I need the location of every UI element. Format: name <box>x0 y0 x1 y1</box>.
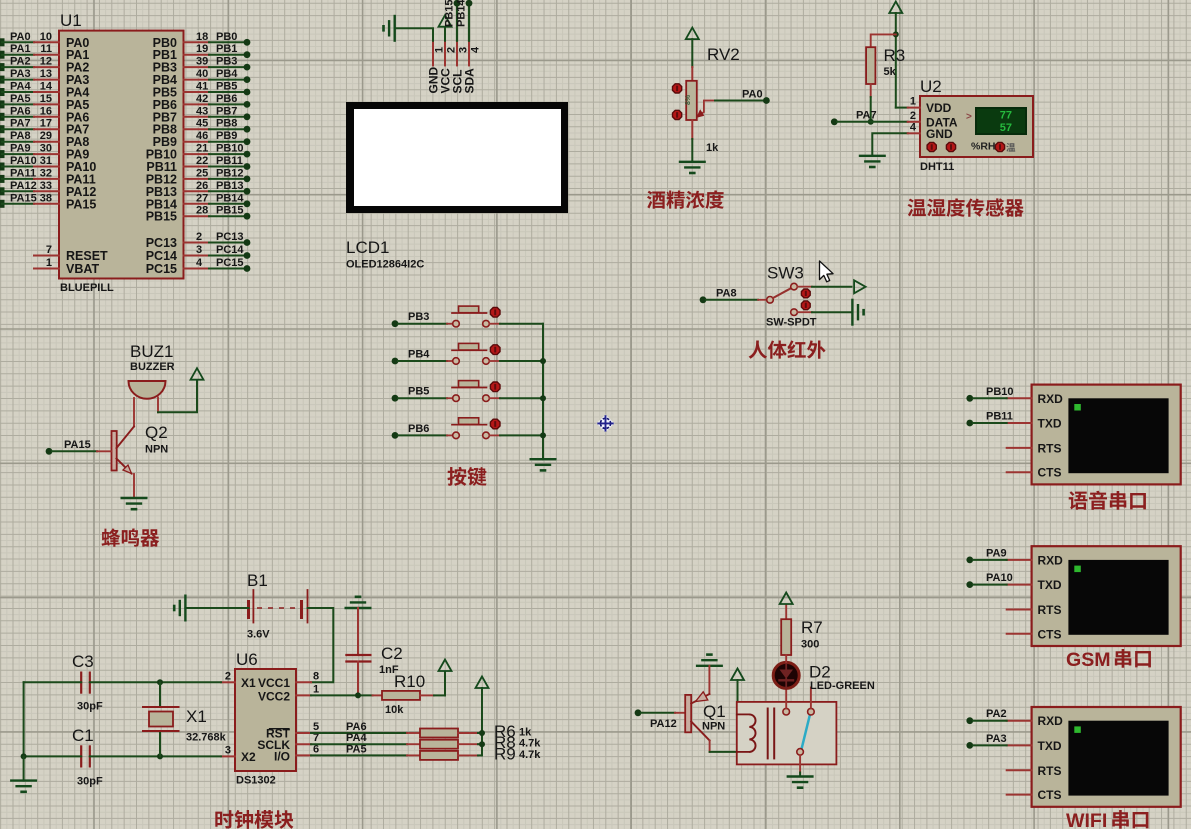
inverted ground (Q1 emitter) <box>697 655 722 666</box>
svg-text:22: 22 <box>196 155 208 167</box>
switch SW3 SW-SPDT <box>766 264 817 329</box>
svg-text:TXD: TXD <box>1038 417 1062 431</box>
svg-text:30: 30 <box>40 143 52 155</box>
push button PB3 <box>392 306 500 327</box>
wire VCC2 to C2/R10 <box>311 692 373 698</box>
svg-text:PB15: PB15 <box>444 0 456 27</box>
caption GSM serial <box>1066 649 1151 671</box>
U1 pin 15 PA5 (left) with wire and terminal <box>0 93 89 112</box>
svg-text:PA9: PA9 <box>10 143 31 155</box>
svg-text:PA7: PA7 <box>10 118 31 130</box>
U1 pin 19 PB1 (right) with wire and terminal <box>153 43 251 62</box>
svg-text:39: 39 <box>196 56 208 68</box>
svg-text:1: 1 <box>46 257 52 269</box>
svg-text:SW-SPDT: SW-SPDT <box>766 317 817 329</box>
svg-text:PA3: PA3 <box>986 733 1007 745</box>
svg-text:7: 7 <box>46 244 52 256</box>
svg-text:R7: R7 <box>801 618 823 637</box>
svg-text:21: 21 <box>196 143 208 155</box>
U1 pin 31 PA10 (left) with wire and terminal <box>0 155 96 174</box>
svg-text:PB9: PB9 <box>216 130 237 142</box>
svg-text:CTS: CTS <box>1038 627 1062 641</box>
svg-text:33: 33 <box>40 180 52 192</box>
pull-up bus to power <box>476 677 489 756</box>
ground (relay common) <box>788 773 813 788</box>
svg-text:PA12: PA12 <box>10 180 37 192</box>
LCD1 pin 2 VCC <box>439 41 458 94</box>
svg-text:PA2: PA2 <box>10 56 31 68</box>
resistor R10 10k <box>373 672 435 716</box>
svg-text:>: > <box>966 112 972 123</box>
svg-text:R10: R10 <box>394 672 425 691</box>
svg-text:DS1302: DS1302 <box>236 775 276 787</box>
svg-text:VDD: VDD <box>926 101 952 115</box>
svg-text:PA12: PA12 <box>650 718 677 730</box>
svg-text:RXD: RXD <box>1038 553 1064 567</box>
wire PA10 (GSM serial) <box>966 572 1012 588</box>
svg-text:C3: C3 <box>72 652 94 671</box>
wire PB14 to LCD SDA <box>456 0 473 41</box>
GSM serial module <box>1007 546 1181 646</box>
wire PB10 (voice serial) <box>966 386 1013 402</box>
U1 pin 29 PA8 (left) with wire and terminal <box>0 130 89 149</box>
resistor R9 4.7k <box>407 744 541 763</box>
svg-text:X1: X1 <box>241 676 256 690</box>
U1 pin 13 PA3 (left) with wire and terminal <box>0 68 89 87</box>
svg-text:2: 2 <box>446 47 458 53</box>
svg-text:32: 32 <box>40 167 52 179</box>
U1 pin 4 PC15 (right) with wire and terminal <box>146 257 251 276</box>
U1 pin 2 PC13 (right) with wire and terminal <box>146 231 251 250</box>
svg-text:PB3: PB3 <box>216 56 237 68</box>
caption clock module <box>215 810 293 829</box>
svg-text:BLUEPILL: BLUEPILL <box>60 282 114 294</box>
U1 pin 7 RESET <box>34 244 108 263</box>
U1 pin 10 PA0 (left) with wire and terminal <box>0 31 89 50</box>
svg-text:PA5: PA5 <box>10 93 31 105</box>
ground (buttons) <box>531 459 556 470</box>
svg-text:PC15: PC15 <box>146 262 177 276</box>
sensor U2 DHT11 <box>908 77 1033 173</box>
caption keys <box>447 467 486 486</box>
svg-text:PC13: PC13 <box>146 236 177 250</box>
svg-text:PA11: PA11 <box>10 167 36 179</box>
inverted ground (C2 top) <box>346 597 371 608</box>
ground (SW3 throw 2) <box>812 300 864 325</box>
svg-text:PC14: PC14 <box>216 244 244 256</box>
svg-text:18: 18 <box>196 31 208 43</box>
power arrow (relay coil) <box>731 669 744 702</box>
svg-text:SDA: SDA <box>463 68 477 94</box>
caption voice serial <box>1069 491 1146 510</box>
power arrow (R7) <box>780 593 793 605</box>
svg-text:NPN: NPN <box>702 721 725 733</box>
svg-text:45: 45 <box>196 118 208 130</box>
svg-text:PB15: PB15 <box>146 210 177 224</box>
power arrow (RV2) <box>686 28 699 67</box>
svg-text:B1: B1 <box>247 571 268 590</box>
svg-text:41: 41 <box>196 81 208 93</box>
svg-text:D2: D2 <box>809 663 831 682</box>
resistor R3 5k <box>866 34 905 97</box>
svg-text:PB14: PB14 <box>216 192 244 204</box>
LCD1 pin 4 SDA <box>463 41 482 94</box>
svg-text:30pF: 30pF <box>77 701 103 713</box>
capacitor C1 30pF <box>72 726 103 788</box>
svg-text:1: 1 <box>313 684 319 696</box>
wire PB5 to ground bus <box>500 397 543 399</box>
svg-text:10: 10 <box>40 31 52 43</box>
svg-text:%RH: %RH <box>971 141 996 153</box>
power arrow (R3) <box>889 2 902 35</box>
power arrow (SW3 throw 1) <box>812 280 866 293</box>
svg-text:PA5: PA5 <box>346 743 367 755</box>
svg-text:PA3: PA3 <box>10 68 31 80</box>
ground bus for buttons <box>540 324 546 460</box>
wire PB15 to LCD SCL <box>444 0 461 41</box>
svg-text:VCC1: VCC1 <box>258 676 290 690</box>
svg-text:3: 3 <box>196 244 202 256</box>
svg-text:PB1: PB1 <box>216 43 237 55</box>
svg-text:X1: X1 <box>186 707 207 726</box>
svg-text:2: 2 <box>910 110 916 122</box>
WIFI serial module <box>1007 707 1181 807</box>
U1 pin 43 PB7 (right) with wire and terminal <box>153 105 251 124</box>
svg-text:PB15: PB15 <box>216 205 244 217</box>
svg-text:VBAT: VBAT <box>66 262 99 276</box>
svg-text:16: 16 <box>40 105 52 117</box>
capacitor C2 1nF <box>346 608 402 695</box>
svg-text:43: 43 <box>196 105 208 117</box>
svg-text:Q2: Q2 <box>145 423 168 442</box>
transistor Q2 NPN <box>112 398 169 497</box>
svg-text:31: 31 <box>40 155 52 167</box>
mouse cursor <box>820 261 834 282</box>
svg-text:NPN: NPN <box>145 444 168 456</box>
voice serial module <box>1007 385 1181 485</box>
U1 pin 3 PC14 (right) with wire and terminal <box>146 244 251 263</box>
svg-text:1: 1 <box>434 47 446 53</box>
svg-text:R9: R9 <box>494 744 516 763</box>
push button PB4 <box>392 343 500 364</box>
svg-text:42: 42 <box>196 93 208 105</box>
svg-text:32.768k: 32.768k <box>186 732 227 744</box>
U1 pin 42 PB6 (right) with wire and terminal <box>153 93 251 112</box>
svg-text:PB5: PB5 <box>408 386 429 398</box>
LCD1 pin 1 GND <box>427 41 446 94</box>
ground (RV2) <box>680 139 705 173</box>
svg-text:PC14: PC14 <box>146 249 177 263</box>
svg-text:29: 29 <box>40 130 52 142</box>
U1 pin 11 PA1 (left) with wire and terminal <box>0 43 89 62</box>
svg-text:40: 40 <box>196 68 208 80</box>
U1 pin 16 PA6 (left) with wire and terminal <box>0 105 89 124</box>
svg-text:DHT11: DHT11 <box>920 161 954 173</box>
svg-text:PB11: PB11 <box>216 155 243 167</box>
svg-text:I/O: I/O <box>274 750 290 764</box>
svg-text:GSM: GSM <box>1066 649 1111 671</box>
U1 pin 18 PB0 (right) with wire and terminal <box>153 31 251 50</box>
power VCC arrow (LCD) <box>439 15 452 41</box>
LED D2 LED-GREEN <box>773 662 875 708</box>
svg-text:PA6: PA6 <box>10 105 31 117</box>
svg-text:3: 3 <box>458 47 470 53</box>
svg-text:PC15: PC15 <box>216 257 244 269</box>
U1 pin 41 PB5 (right) with wire and terminal <box>153 81 251 100</box>
U1 pin 39 PB3 (right) with wire and terminal <box>153 56 251 75</box>
wire left bus C3-C1-ground <box>21 682 27 780</box>
wire PB3 to ground bus <box>500 323 543 325</box>
svg-text:25: 25 <box>196 167 208 179</box>
svg-text:U2: U2 <box>920 77 942 96</box>
svg-text:PA7: PA7 <box>856 109 877 121</box>
svg-text:PA10: PA10 <box>10 155 37 167</box>
transistor Q1 NPN <box>685 666 725 752</box>
svg-text:2: 2 <box>196 231 202 243</box>
svg-text:CTS: CTS <box>1038 788 1062 802</box>
svg-text:26: 26 <box>196 180 208 192</box>
svg-text:OLED12864I2C: OLED12864I2C <box>346 259 424 271</box>
wire PB11 (voice serial) <box>966 411 1013 427</box>
svg-text:BUZZER: BUZZER <box>130 361 175 373</box>
wire PA9 (GSM serial) <box>966 547 1006 563</box>
svg-text:C2: C2 <box>381 644 403 663</box>
svg-text:PC13: PC13 <box>216 231 244 243</box>
svg-text:3.6V: 3.6V <box>247 629 270 641</box>
caption buzzer <box>102 528 160 546</box>
svg-text:2: 2 <box>225 671 231 683</box>
U1 pin 30 PA9 (left) with wire and terminal <box>0 143 89 162</box>
svg-text:PB4: PB4 <box>408 349 430 361</box>
wire DHT11 GND to ground <box>872 133 907 156</box>
svg-text:PA15: PA15 <box>64 439 91 451</box>
push button PB5 <box>392 381 500 402</box>
svg-text:13: 13 <box>40 68 52 80</box>
svg-text:PA6: PA6 <box>346 721 367 733</box>
wire PB6 to ground bus <box>500 434 543 436</box>
U1 pin 17 PA7 (left) with wire and terminal <box>0 118 89 137</box>
wire PB4 to ground bus <box>500 360 543 362</box>
U1 pin 28 PB15 (right) with wire and terminal <box>146 205 251 224</box>
svg-text:PB6: PB6 <box>216 93 237 105</box>
svg-text:VCC2: VCC2 <box>258 690 290 704</box>
caption alcohol concentration <box>647 190 724 209</box>
svg-text:WIFI: WIFI <box>1066 810 1107 829</box>
ground (DHT11) <box>860 156 885 167</box>
svg-text:U6: U6 <box>236 650 258 669</box>
svg-text:LED-GREEN: LED-GREEN <box>810 680 875 692</box>
svg-text:5: 5 <box>313 721 319 733</box>
svg-text:U1: U1 <box>60 11 82 30</box>
svg-text:12: 12 <box>40 56 52 68</box>
svg-text:57: 57 <box>1000 122 1012 134</box>
U1 pin 32 PA11 (left) with wire and terminal <box>0 167 96 186</box>
wire PA8 to SW3 pole <box>700 287 767 303</box>
battery B1 3.6V <box>247 571 308 641</box>
RTC U6 DS1302 <box>221 650 319 787</box>
svg-text:PA2: PA2 <box>986 708 1007 720</box>
svg-text:77: 77 <box>1000 110 1012 122</box>
wire PA2 (WIFI serial) <box>966 708 1006 724</box>
svg-text:PA0: PA0 <box>10 31 31 43</box>
svg-text:1k: 1k <box>519 727 532 739</box>
U1 pin 26 PB13 (right) with wire and terminal <box>146 180 251 199</box>
svg-text:4.7k: 4.7k <box>519 749 541 761</box>
wire PA5 <box>311 743 407 755</box>
U1 pin 38 PA15 (left) with wire and terminal <box>0 192 96 211</box>
svg-text:PB8: PB8 <box>216 118 237 130</box>
svg-text:4: 4 <box>196 257 203 269</box>
svg-text:PA1: PA1 <box>10 43 31 55</box>
svg-text:PB6: PB6 <box>408 423 429 435</box>
relay RL1 <box>737 688 837 773</box>
wire PA7 to DHT11 DATA <box>831 109 908 125</box>
svg-text:4.7k: 4.7k <box>519 738 541 750</box>
svg-text:SW3: SW3 <box>767 264 804 283</box>
svg-text:1: 1 <box>910 96 916 108</box>
svg-text:8%: 8% <box>685 94 692 105</box>
ground (Q2 emitter) <box>122 498 147 509</box>
wire R3 bottom to PA7/DATA <box>868 97 874 125</box>
U1 pin 46 PB9 (right) with wire and terminal <box>153 130 251 149</box>
U1 pin 22 PB11 (right) with wire and terminal <box>146 155 250 174</box>
LCD1 OLED12864I2C display <box>346 102 568 271</box>
svg-text:28: 28 <box>196 205 208 217</box>
U1 pin 45 PB8 (right) with wire and terminal <box>153 118 251 137</box>
U1 pin 12 PA2 (left) with wire and terminal <box>0 56 89 75</box>
svg-text:PB13: PB13 <box>216 180 244 192</box>
svg-text:PB10: PB10 <box>986 386 1014 398</box>
svg-text:RV2: RV2 <box>707 45 740 64</box>
svg-text:PB12: PB12 <box>216 167 244 179</box>
svg-text:RTS: RTS <box>1038 764 1062 778</box>
crystal X1 32.768k <box>143 682 227 756</box>
svg-text:TXD: TXD <box>1038 739 1062 753</box>
power arrow (buzzer) <box>191 368 204 380</box>
svg-text:PB0: PB0 <box>216 31 237 43</box>
svg-text:PB4: PB4 <box>216 68 238 80</box>
svg-text:1k: 1k <box>706 142 719 154</box>
svg-text:15: 15 <box>40 93 52 105</box>
svg-text:30pF: 30pF <box>77 776 103 788</box>
svg-text:14: 14 <box>40 81 53 93</box>
potentiometer RV2 1k <box>673 45 740 154</box>
svg-text:PA10: PA10 <box>986 572 1013 584</box>
U1 pin 1 VBAT <box>34 257 99 276</box>
U1 pin 14 PA4 (left) with wire and terminal <box>0 81 89 100</box>
svg-text:38: 38 <box>40 192 52 204</box>
svg-text:X2: X2 <box>241 750 256 764</box>
wire PA12 to Q1 base <box>635 709 686 730</box>
U1 pin 27 PB14 (right) with wire and terminal <box>146 192 251 211</box>
wire PA4 <box>311 732 407 744</box>
svg-text:RESET: RESET <box>66 249 108 263</box>
wire R3 top to VDD rail <box>893 31 908 107</box>
ground (C1 C3) <box>11 781 36 792</box>
wire buzzer right to power <box>158 381 197 412</box>
svg-text:R3: R3 <box>884 46 906 65</box>
svg-text:PB10: PB10 <box>216 143 244 155</box>
U1 pin 33 PA12 (left) with wire and terminal <box>0 180 96 199</box>
push button PB6 <box>392 418 500 439</box>
svg-text:3: 3 <box>225 745 231 757</box>
LCD1 pin 3 SCL <box>451 41 470 94</box>
wire PA6 <box>311 721 407 733</box>
resistor R8 4.7k <box>407 733 541 752</box>
svg-text:PB7: PB7 <box>216 105 237 117</box>
svg-text:27: 27 <box>196 192 208 204</box>
wire PA15 to Q2 base <box>46 439 112 455</box>
MCU U1 BLUEPILL body <box>59 11 184 294</box>
wire C3 row <box>24 679 221 685</box>
svg-text:Q1: Q1 <box>703 702 726 721</box>
U1 pin 40 PB4 (right) with wire and terminal <box>153 68 251 87</box>
svg-text:PB11: PB11 <box>986 411 1013 423</box>
svg-text:19: 19 <box>196 43 208 55</box>
svg-text:PA9: PA9 <box>986 547 1007 559</box>
svg-text:8: 8 <box>313 671 319 683</box>
wire C1 row <box>24 753 221 759</box>
U1 pin 21 PB10 (right) with wire and terminal <box>146 143 251 162</box>
svg-text:17: 17 <box>40 118 52 130</box>
svg-text:PA15: PA15 <box>66 197 96 211</box>
svg-text:BUZ1: BUZ1 <box>130 342 173 361</box>
svg-text:PA4: PA4 <box>10 81 31 93</box>
origin marker <box>597 415 615 433</box>
caption human infrared <box>749 340 826 358</box>
ground (B1) <box>174 596 248 621</box>
capacitor C3 30pF <box>72 652 103 713</box>
svg-text:RXD: RXD <box>1038 714 1064 728</box>
svg-text:PA4: PA4 <box>346 732 367 744</box>
svg-text:GND: GND <box>926 127 953 141</box>
wire RV2 wiper to PA0 <box>704 89 770 104</box>
svg-text:C1: C1 <box>72 726 94 745</box>
svg-text:PA0: PA0 <box>742 89 763 101</box>
svg-text:RTS: RTS <box>1038 603 1062 617</box>
svg-text:TXD: TXD <box>1038 578 1062 592</box>
svg-text:10k: 10k <box>385 704 404 716</box>
svg-text:PB3: PB3 <box>408 311 429 323</box>
svg-text:5k: 5k <box>884 66 897 78</box>
resistor R6 1k <box>407 722 532 741</box>
wire PA3 (WIFI serial) <box>966 733 1006 749</box>
svg-text:RTS: RTS <box>1038 441 1062 455</box>
svg-text:PB14: PB14 <box>456 0 468 27</box>
svg-text:CTS: CTS <box>1038 466 1062 480</box>
wire Q1 collector to relay coil <box>710 751 737 753</box>
wire B1 to VCC1 <box>308 608 334 682</box>
svg-text:46: 46 <box>196 130 208 142</box>
svg-text:4: 4 <box>470 46 482 53</box>
svg-text:LCD1: LCD1 <box>346 238 389 257</box>
svg-text:300: 300 <box>801 639 819 651</box>
svg-text:PA15: PA15 <box>10 192 37 204</box>
power arrow (R10) <box>434 660 452 696</box>
svg-text:PA8: PA8 <box>10 130 31 142</box>
ground (LCD GND) <box>384 16 434 41</box>
buzzer BUZ1 <box>129 342 175 399</box>
caption temperature humidity sensor <box>908 198 1024 217</box>
svg-text:4: 4 <box>910 121 917 133</box>
U1 pin 25 PB12 (right) with wire and terminal <box>146 167 251 186</box>
svg-text:PB5: PB5 <box>216 81 237 93</box>
svg-text:PA8: PA8 <box>716 287 737 299</box>
svg-text:RXD: RXD <box>1038 392 1064 406</box>
svg-text:11: 11 <box>40 43 52 55</box>
resistor R7 300 <box>781 605 823 663</box>
caption WIFI serial <box>1066 810 1148 829</box>
